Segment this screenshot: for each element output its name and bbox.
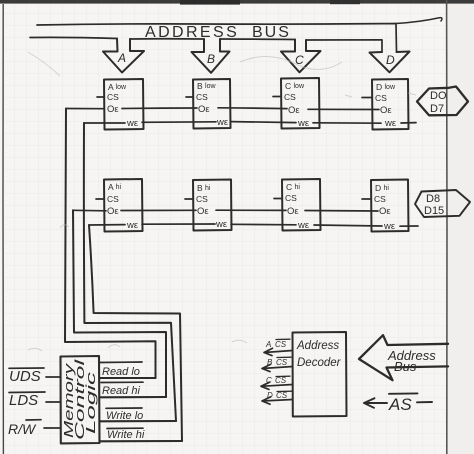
svg-text:Oε: Oε [288, 105, 300, 116]
svg-text:wε: wε [297, 220, 310, 231]
svg-text:AS: AS [388, 395, 412, 414]
svg-text:CS: CS [196, 92, 208, 102]
svg-text:D hi: D hi [375, 183, 389, 193]
svg-text:CS: CS [374, 194, 386, 204]
svg-text:UDS: UDS [9, 368, 41, 385]
svg-text:A: A [265, 340, 271, 349]
svg-text:D8: D8 [426, 193, 440, 205]
svg-text:wε: wε [384, 118, 397, 129]
svg-text:B low: B low [197, 81, 216, 91]
svg-text:Oε: Oε [198, 104, 210, 115]
svg-text:Address: Address [296, 340, 339, 352]
svg-text:wε: wε [126, 118, 139, 129]
svg-text:Bus: Bus [394, 359, 417, 374]
svg-text:R/W: R/W [8, 421, 37, 437]
svg-text:A hi: A hi [108, 182, 121, 192]
svg-text:Oε: Oε [107, 104, 119, 115]
svg-text:C: C [295, 53, 304, 67]
svg-text:Logic: Logic [83, 371, 98, 434]
svg-text:Read hi: Read hi [102, 385, 140, 397]
svg-text:B: B [267, 358, 273, 367]
svg-text:wε: wε [297, 118, 310, 129]
svg-text:Read lo: Read lo [102, 366, 140, 378]
svg-text:CS: CS [275, 340, 287, 349]
svg-text:wε: wε [216, 117, 229, 128]
svg-text:B: B [207, 52, 215, 66]
svg-text:D15: D15 [424, 205, 444, 217]
svg-text:DO: DO [430, 90, 447, 102]
svg-text:CS: CS [276, 358, 288, 367]
svg-text:C: C [266, 376, 272, 385]
svg-text:wε: wε [383, 221, 396, 232]
svg-text:Decoder: Decoder [297, 357, 342, 369]
svg-text:Oε: Oε [379, 206, 391, 217]
svg-text:A: A [117, 51, 126, 65]
svg-text:D: D [267, 391, 273, 400]
svg-text:wε: wε [215, 219, 228, 230]
svg-text:Oε: Oε [287, 206, 299, 217]
svg-text:LDS: LDS [9, 392, 38, 409]
svg-text:Oε: Oε [380, 105, 392, 116]
svg-text:ADDRESS: ADDRESS [145, 24, 239, 41]
svg-text:CS: CS [196, 194, 208, 204]
svg-text:Oε: Oε [197, 206, 209, 217]
svg-text:D low: D low [376, 82, 396, 92]
svg-text:CS: CS [275, 376, 287, 385]
svg-text:A low: A low [108, 82, 127, 92]
svg-text:BUS: BUS [252, 24, 291, 41]
svg-text:CS: CS [375, 93, 387, 103]
svg-text:C low: C low [285, 81, 305, 91]
svg-text:CS: CS [284, 92, 296, 102]
svg-text:wε: wε [126, 220, 139, 231]
svg-text:D7: D7 [430, 103, 444, 115]
svg-text:C hi: C hi [286, 182, 300, 192]
svg-text:CS: CS [107, 92, 119, 102]
svg-text:B hi: B hi [197, 183, 211, 193]
svg-text:D: D [386, 53, 395, 67]
svg-text:CS: CS [285, 193, 297, 203]
svg-text:Oε: Oε [107, 206, 119, 217]
svg-text:Write hi: Write hi [107, 429, 145, 441]
svg-text:Write lo: Write lo [106, 410, 143, 422]
svg-text:CS: CS [276, 391, 288, 400]
svg-text:CS: CS [107, 194, 119, 204]
